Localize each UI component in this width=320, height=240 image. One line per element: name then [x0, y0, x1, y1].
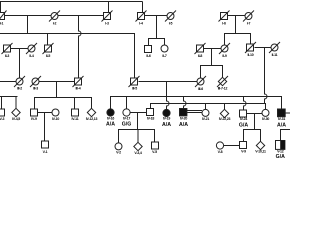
- square II-10 deceased: [245, 42, 256, 53]
- square II-3 deceased: [2, 43, 13, 54]
- svg-text:A/A: A/A: [106, 122, 115, 128]
- circle I-5 deceased: [165, 11, 176, 22]
- svg-text:I-1: I-1: [0, 21, 3, 25]
- wire couple II-8 II-9: [204, 48, 222, 50]
- wire drop IV-n+IV-o children: [254, 114, 256, 130]
- svg-text:IV-21: IV-21: [202, 117, 209, 121]
- svg-text:A/A: A/A: [179, 122, 188, 128]
- circle II-7: [161, 45, 168, 52]
- wire drop IV-h+IV-i children: [137, 113, 139, 130]
- wire drop line B to IV-m diamond: [224, 104, 226, 110]
- square I-1 deceased: [0, 11, 7, 22]
- svg-text:II-7: II-7: [162, 54, 167, 58]
- svg-text:V-5: V-5: [152, 150, 157, 154]
- wire couple II-10 II-11: [255, 47, 272, 49]
- wire sibship II-6 II-7: [149, 39, 165, 46]
- svg-text:III-3: III-3: [33, 86, 38, 90]
- square I-4 deceased: [136, 11, 147, 22]
- diamond IV-f: [87, 108, 95, 116]
- svg-text:IV-19: IV-19: [163, 117, 170, 121]
- svg-text:IV-4,5: IV-4,5: [12, 117, 20, 121]
- svg-text:III-6: III-6: [198, 87, 203, 91]
- wire drop to I-3: [108, 2, 110, 13]
- wire double consanguinity line IV-k IV-l: [187, 110, 202, 112]
- wire sibship line A children of III-5+III-6: [111, 97, 282, 110]
- square IV-a left cut: [0, 109, 5, 116]
- svg-text:IV-20: IV-20: [180, 117, 187, 121]
- svg-text:IV-9: IV-9: [31, 117, 37, 121]
- svg-text:V-1: V-1: [43, 150, 48, 154]
- square II-6: [145, 46, 152, 53]
- svg-text:G/A: G/A: [239, 122, 248, 128]
- circle II-9 deceased: [219, 43, 230, 54]
- svg-text:II-6: II-6: [146, 54, 151, 58]
- wire feed V-8 from right: [281, 130, 291, 141]
- square IV-i: [147, 109, 154, 116]
- svg-text:II-5: II-5: [46, 54, 51, 58]
- svg-text:IV-12,13: IV-12,13: [86, 117, 98, 121]
- wire drop I-6+I-7 children: [235, 16, 237, 34]
- wire top sibship line gen I: [1, 2, 143, 13]
- wire drop line A to IV-n square with hop over line B: [244, 97, 247, 111]
- svg-text:IV-24: IV-24: [240, 117, 247, 121]
- diamond IV-b: [12, 108, 20, 116]
- svg-text:IV-18: IV-18: [147, 117, 154, 121]
- wire couple II-3 II-4: [11, 48, 29, 50]
- svg-text:I-3: I-3: [105, 21, 109, 25]
- wire couple I-1 I-2: [5, 15, 52, 17]
- svg-text:V-12: V-12: [277, 150, 284, 154]
- wire couple IV-c IV-d: [38, 112, 53, 114]
- square IV-c: [31, 109, 38, 116]
- circle II-4 deceased: [26, 43, 37, 54]
- circle III-2 deceased: [14, 76, 25, 87]
- wire sibship V children of IV-h+IV-i: [119, 130, 155, 143]
- svg-text:II-9: II-9: [222, 54, 227, 58]
- square I-3 deceased: [102, 11, 113, 22]
- svg-text:II-10: II-10: [247, 53, 253, 57]
- wire couple III-3 III-4: [39, 81, 75, 83]
- circle V-2: [115, 143, 122, 150]
- wire drop to IV square left: [1, 97, 3, 110]
- svg-text:IV-31: IV-31: [278, 117, 285, 121]
- svg-text:I-2: I-2: [53, 21, 57, 25]
- wire sibship II-9 II-10: [225, 34, 251, 46]
- svg-text:I-7: I-7: [247, 21, 251, 25]
- circle IV-h: [123, 109, 130, 116]
- circle V-5: [216, 142, 223, 149]
- svg-text:V-2: V-2: [116, 151, 121, 155]
- square IV-k affected: [180, 109, 187, 116]
- wire drop to IV diamond left: [15, 97, 17, 109]
- square III-4 deceased: [73, 76, 84, 87]
- svg-text:V-10,11: V-10,11: [255, 150, 266, 154]
- wire couple III-5 III-6: [139, 81, 198, 83]
- wire drop III-5+III-6 children feed: [166, 82, 168, 97]
- svg-text:III-4: III-4: [75, 86, 80, 90]
- wire drop to V-3 diamond: [137, 130, 139, 143]
- square V-6: [240, 142, 247, 149]
- diamond V-7: [256, 141, 264, 149]
- square IV-n: [240, 110, 247, 117]
- svg-text:IV-30: IV-30: [262, 117, 269, 121]
- square III-5 deceased: [129, 76, 140, 87]
- svg-text:III-2: III-2: [17, 86, 22, 90]
- wire sibship children of III-3+III-4: [35, 98, 92, 110]
- wire drop II-3+II-4 to III-2: [19, 49, 21, 79]
- wire sibship III-6 III-7: [201, 66, 223, 79]
- square IV-e: [72, 109, 79, 116]
- svg-text:III-5: III-5: [132, 87, 137, 91]
- svg-text:IV-11: IV-11: [72, 117, 79, 121]
- circle IV-j affected: [163, 109, 170, 116]
- svg-text:G/A: G/A: [276, 154, 285, 158]
- wire drop II-10+II-11 long with hop over line A: [265, 48, 268, 104]
- wire sibship IV children of III-1+III-2: [0, 96, 18, 98]
- svg-text:V-8: V-8: [218, 150, 223, 154]
- wire drop line B to IV-l circle: [205, 104, 207, 110]
- wire drop III-3+III-4 children: [56, 82, 58, 98]
- wire sibship line gen II left: [0, 34, 135, 79]
- svg-text:G/G: G/G: [122, 122, 132, 128]
- svg-text:I-4: I-4: [139, 21, 143, 25]
- svg-text:II-11: II-11: [272, 53, 278, 57]
- square V-8 half affected: [276, 141, 285, 150]
- square V-4: [152, 142, 159, 149]
- square IV-p affected: [278, 109, 286, 117]
- circle IV-o: [262, 109, 269, 116]
- diamond IV-m: [220, 109, 228, 117]
- wire sibship V children of IV-n+IV-o: [244, 130, 261, 142]
- svg-text:II-3: II-3: [5, 54, 10, 58]
- circle IV-d: [52, 109, 59, 116]
- wire drop II-8+II-9 children: [211, 49, 213, 66]
- svg-text:V-9: V-9: [241, 150, 246, 154]
- svg-text:V-3,4: V-3,4: [134, 151, 141, 155]
- svg-text:I-6: I-6: [222, 21, 226, 25]
- svg-text:IV-17: IV-17: [123, 117, 130, 121]
- wire drop I-2+I-3 to III-4 with hop: [79, 16, 82, 79]
- svg-text:IV-22,23: IV-22,23: [219, 117, 231, 121]
- square II-5 deceased: [43, 43, 54, 54]
- svg-text:II-4: II-4: [29, 54, 34, 58]
- svg-text:III-7-12: III-7-12: [218, 87, 228, 91]
- circle I-2 deceased: [49, 11, 60, 22]
- svg-text:II-8: II-8: [198, 54, 203, 58]
- wire couple IV-n IV-o: [247, 113, 263, 115]
- diamond V-3: [134, 142, 142, 150]
- circle III-6 deceased: [195, 76, 206, 87]
- wire couple IV-p to right edge: [285, 112, 290, 114]
- square II-8 deceased: [195, 43, 206, 54]
- wire drop line A to IV-j filled circle with hop over line B: [167, 97, 170, 110]
- svg-text:I-5: I-5: [169, 21, 173, 25]
- svg-text:IV-16: IV-16: [107, 117, 114, 121]
- circle IV-g affected: [107, 109, 114, 116]
- circle III-3 deceased: [30, 76, 41, 87]
- wire drop to IV-e square: [74, 98, 76, 110]
- circle IV-l: [202, 109, 209, 116]
- square I-6 deceased: [219, 11, 230, 22]
- wire drop line A to IV-h circle: [126, 97, 128, 110]
- wire drop I-1+I-2 children: [27, 16, 29, 34]
- svg-text:A/A: A/A: [277, 123, 286, 129]
- circle II-11 deceased: [269, 42, 280, 53]
- svg-text:IV-10: IV-10: [52, 117, 59, 121]
- circle I-7 deceased: [243, 11, 254, 22]
- square V-1: [42, 141, 49, 148]
- wire drop line A to IV-k filled square with hop over line B: [184, 97, 187, 109]
- svg-text:IV-3: IV-3: [0, 117, 4, 121]
- wire drop to I-4: [142, 2, 144, 13]
- wire drop to II-5: [47, 34, 49, 46]
- svg-text:A/A: A/A: [162, 122, 171, 128]
- wire couple IV-h IV-i: [130, 112, 147, 114]
- wire couple V-5 V-6: [224, 145, 240, 147]
- wire couple I-6 I-7: [228, 15, 246, 17]
- wire couple I-4 I-5: [145, 15, 168, 17]
- wire drop I-4+I-5 children: [156, 16, 158, 39]
- wire drop IV-c+IV-d to V-1: [44, 113, 46, 142]
- diamond III-7 deceased: [217, 76, 228, 87]
- wire sibship line B children of II-10+II-11: [151, 104, 266, 110]
- wire couple I-2 I-3: [58, 15, 104, 17]
- wire couple III-1 III-2 from left edge: [0, 81, 16, 83]
